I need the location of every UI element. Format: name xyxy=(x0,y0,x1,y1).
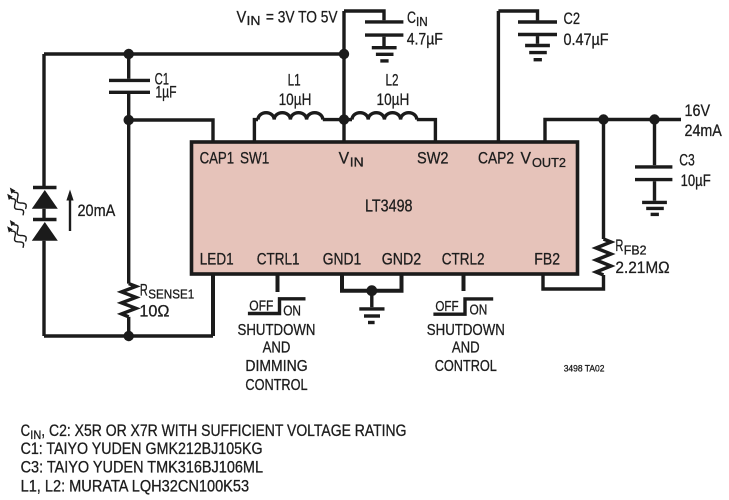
svg-text:10µH: 10µH xyxy=(279,90,312,109)
wire CTRL1 pin stub xyxy=(276,274,280,292)
resistor RSENSE1 xyxy=(122,280,195,320)
ground CIN xyxy=(372,48,397,61)
svg-text:ON: ON xyxy=(470,302,488,319)
svg-text:LT3498: LT3498 xyxy=(365,196,413,216)
wire RFB2 top xyxy=(602,120,605,240)
node junction VIN rail xyxy=(339,49,349,59)
node junction C1 top xyxy=(124,49,134,59)
svg-text:CAP2: CAP2 xyxy=(478,149,514,168)
capacitor C1 xyxy=(109,54,177,120)
svg-text:R: R xyxy=(615,236,623,255)
svg-text:C3: C3 xyxy=(679,150,695,169)
label VIN = 3V TO 5V xyxy=(237,7,339,28)
svg-text:C1: TAIYO YUDEN GMK212BJ105KG: C1: TAIYO YUDEN GMK212BJ105KG xyxy=(21,440,263,458)
wire RFB2 to FB2 pin xyxy=(543,274,604,289)
OFF ON symbol CTRL2 xyxy=(433,298,493,319)
svg-text:L2: L2 xyxy=(386,71,399,90)
svg-text:CAP1: CAP1 xyxy=(200,149,235,168)
wire left vertical to LED string xyxy=(42,54,45,186)
wire CTRL2 pin stub xyxy=(462,274,466,291)
svg-text:GND2: GND2 xyxy=(382,250,422,269)
svg-text:C2: C2 xyxy=(564,9,581,28)
svg-text:FB2: FB2 xyxy=(534,250,560,269)
svg-text:V: V xyxy=(237,7,247,26)
wire top-left rail xyxy=(44,52,345,55)
light arrows D2 xyxy=(7,220,26,247)
svg-text:1µF: 1µF xyxy=(155,83,176,102)
svg-text:10µH: 10µH xyxy=(377,90,410,109)
svg-text:SHUTDOWN: SHUTDOWN xyxy=(427,322,505,339)
current arrow 20mA xyxy=(66,190,115,232)
wire LED string to bottom rail xyxy=(42,241,45,336)
svg-text:10µF: 10µF xyxy=(681,171,711,190)
svg-text:L1, L2: MURATA LQH32CN100K53: L1, L2: MURATA LQH32CN100K53 xyxy=(21,477,250,495)
wire bottom-left rail xyxy=(44,334,213,337)
svg-text:FB2: FB2 xyxy=(624,243,647,257)
wire LED1 pin stub xyxy=(211,274,215,336)
svg-text:V: V xyxy=(521,149,532,168)
notes text xyxy=(21,422,407,495)
svg-text:= 3V TO 5V: = 3V TO 5V xyxy=(266,7,338,26)
wire VIN vertical xyxy=(342,11,345,142)
svg-text:IN: IN xyxy=(416,15,428,29)
svg-text:GND1: GND1 xyxy=(323,250,362,269)
svg-text:CTRL1: CTRL1 xyxy=(257,250,300,269)
svg-text:CTRL2: CTRL2 xyxy=(442,250,485,269)
pin label VOUT2 xyxy=(521,149,567,170)
node junction RFB2 top xyxy=(598,114,608,124)
LED D1 xyxy=(32,188,58,209)
svg-text:IN: IN xyxy=(247,14,261,28)
svg-text:CONTROL: CONTROL xyxy=(245,377,307,394)
svg-text:AND: AND xyxy=(452,339,480,356)
svg-text:IN: IN xyxy=(350,156,364,170)
wire GND1 GND2 stubs xyxy=(342,274,402,291)
capacitor C3 xyxy=(635,120,711,201)
svg-text:4.7µF: 4.7µF xyxy=(407,30,443,49)
label shutdown and dimming control xyxy=(238,322,316,394)
svg-text:24mA: 24mA xyxy=(685,121,723,140)
resistor RFB2 xyxy=(596,236,670,277)
svg-text:10Ω: 10Ω xyxy=(139,302,169,321)
ground C2 xyxy=(525,46,550,60)
svg-text:SW2: SW2 xyxy=(417,149,449,168)
wire RSENSE1 to bottom rail xyxy=(127,317,130,336)
svg-text:2.21MΩ: 2.21MΩ xyxy=(615,258,669,277)
svg-text:OUT2: OUT2 xyxy=(532,156,566,170)
svg-text:OFF: OFF xyxy=(435,298,458,315)
capacitor C2 xyxy=(498,9,608,49)
label 16V 24mA xyxy=(685,101,723,140)
svg-text:SW1: SW1 xyxy=(240,149,269,168)
svg-text:C3: TAIYO YUDEN TMK316BJ106ML: C3: TAIYO YUDEN TMK316BJ106ML xyxy=(21,459,263,477)
OFF ON symbol CTRL1 xyxy=(248,297,306,319)
capacitor CIN xyxy=(344,8,443,48)
wire C1 node to RSENSE1 xyxy=(127,120,130,284)
inductor L2 xyxy=(344,71,435,142)
ground C3 xyxy=(642,202,667,214)
svg-text:C: C xyxy=(21,422,31,440)
node junction C1 bottom xyxy=(124,115,134,125)
svg-text:AND: AND xyxy=(263,339,291,356)
svg-text:V: V xyxy=(339,149,350,168)
ground GND pins xyxy=(359,291,384,323)
pin label VIN xyxy=(339,149,364,170)
IC U1 LT3498 body xyxy=(192,142,578,274)
wire between LEDs xyxy=(42,209,45,218)
svg-text:ON: ON xyxy=(283,302,301,319)
svg-text:C: C xyxy=(407,8,416,27)
svg-text:DIMMING: DIMMING xyxy=(245,358,307,375)
wire to CAP1 pin xyxy=(129,120,213,142)
label shutdown and control xyxy=(427,322,505,375)
node junction VIN inductors xyxy=(339,114,349,124)
svg-text:16V: 16V xyxy=(685,101,711,120)
svg-text:SHUTDOWN: SHUTDOWN xyxy=(238,322,316,339)
inductor L1 xyxy=(254,71,344,142)
svg-text:3498 TA02: 3498 TA02 xyxy=(564,363,605,374)
svg-text:, C2: X5R OR X7R WITH SUFFICIE: , C2: X5R OR X7R WITH SUFFICIENT VOLTAGE… xyxy=(41,422,406,440)
svg-text:L1: L1 xyxy=(288,71,301,90)
LED D2 xyxy=(32,220,58,241)
node junction bottom rail xyxy=(124,331,134,341)
node junction ground xyxy=(366,285,377,296)
svg-text:20mA: 20mA xyxy=(78,201,116,220)
wire VOUT2 to output rail xyxy=(545,120,681,143)
svg-text:R: R xyxy=(140,280,148,299)
wire CAP2 vertical xyxy=(497,11,500,142)
light arrows D1 xyxy=(7,188,26,215)
svg-text:SENSE1: SENSE1 xyxy=(148,287,194,301)
svg-text:0.47µF: 0.47µF xyxy=(564,30,609,49)
node junction C3 top xyxy=(649,114,659,124)
svg-text:LED1: LED1 xyxy=(200,250,234,269)
svg-text:CONTROL: CONTROL xyxy=(435,358,497,375)
svg-text:OFF: OFF xyxy=(249,297,273,314)
